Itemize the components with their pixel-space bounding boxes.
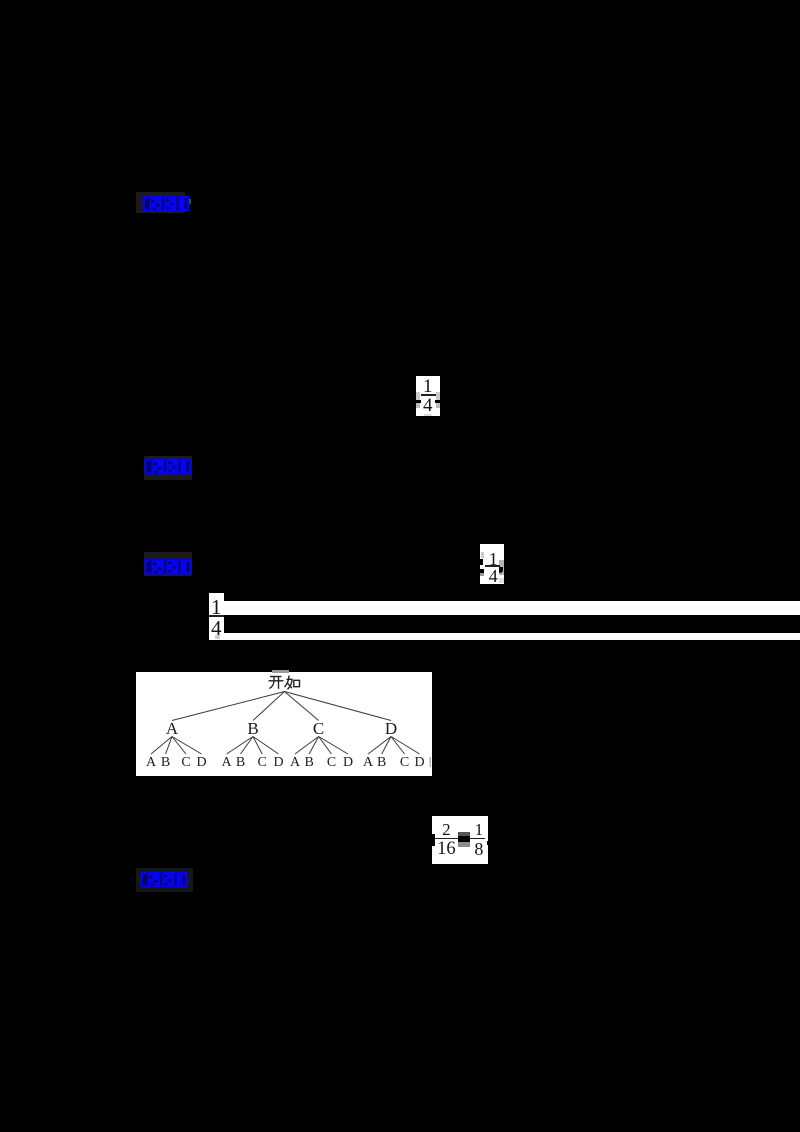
svg-text:D: D xyxy=(415,755,425,770)
svg-text:B: B xyxy=(377,755,386,770)
label 4 blue text 【点评】 xyxy=(140,871,188,888)
comma right of fraction 2 xyxy=(499,567,503,573)
label box 2 xyxy=(144,456,192,480)
label 3 blue text 【解答】 xyxy=(144,558,192,575)
white strip 2 xyxy=(209,633,800,640)
black dashes at sides of fraction 1 xyxy=(415,400,421,403)
svg-text:B: B xyxy=(305,755,314,770)
svg-text:A: A xyxy=(363,755,374,770)
svg-text:B: B xyxy=(247,719,258,738)
svg-text:D: D xyxy=(343,755,353,770)
tree diagram white panel xyxy=(136,672,432,776)
label box 1 (dark backdrop) xyxy=(136,192,185,213)
tree drawing xyxy=(136,672,432,776)
dark equals block xyxy=(458,832,470,836)
root fan lines xyxy=(172,692,391,721)
svg-text:B: B xyxy=(161,755,170,770)
svg-text:A: A xyxy=(222,755,233,770)
leaf labels xyxy=(146,755,425,770)
white strip 1 xyxy=(224,601,800,616)
svg-text:D: D xyxy=(274,755,284,770)
teal tick right of label 1 xyxy=(189,199,191,204)
svg-text:C: C xyxy=(400,755,409,770)
fraction image 3: 1/4 with bar xyxy=(209,593,224,634)
gray artifact below fraction 3 xyxy=(215,635,221,639)
fraction image 2: =1/4, xyxy=(480,544,504,584)
fraction image 1: 1/4 xyxy=(416,376,440,417)
gray patches fraction 2 xyxy=(481,552,484,558)
right comma mark fraction 4 xyxy=(487,841,489,845)
svg-text:A: A xyxy=(146,755,157,770)
label box 4 xyxy=(136,868,193,892)
svg-text:C: C xyxy=(327,755,336,770)
svg-text:C: C xyxy=(181,755,190,770)
left overlap mark fraction 4 xyxy=(431,834,435,847)
level-1 labels A B C D xyxy=(166,719,397,738)
开始 label xyxy=(269,676,300,690)
svg-text:A: A xyxy=(166,719,179,738)
gray tab above tree panel xyxy=(272,670,290,673)
svg-text:A: A xyxy=(290,755,301,770)
svg-text:D: D xyxy=(196,755,206,770)
label box 3 xyxy=(144,552,193,576)
label 1 blue text 【考点】 xyxy=(142,195,190,212)
equals overlap left of fraction 2 xyxy=(480,559,483,565)
gray edge artifacts fraction 1 xyxy=(416,392,420,400)
fan lines level 2 xyxy=(151,737,420,755)
fraction image 4: 2/16 = 1/8 xyxy=(432,816,488,864)
svg-text:B: B xyxy=(236,755,245,770)
svg-text:C: C xyxy=(258,755,267,770)
gray artifact line right edge xyxy=(430,757,431,767)
svg-text:D: D xyxy=(385,719,397,738)
label 2 blue text 【分析】 xyxy=(144,458,192,475)
svg-text:C: C xyxy=(313,719,324,738)
